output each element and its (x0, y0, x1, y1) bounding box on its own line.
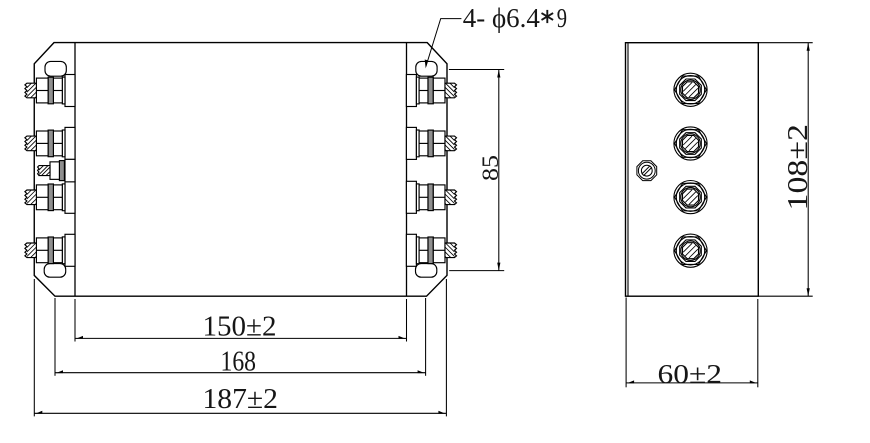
ground hex screw (side) (637, 161, 657, 181)
svg-text:9: 9 (557, 3, 567, 33)
svg-text:60±2: 60±2 (658, 358, 723, 389)
terminal 2 left (25, 127, 75, 159)
dim 150: arrowheads (76, 336, 83, 339)
screw terminal 1 (side) (674, 73, 707, 106)
dim 150: extension lines (75, 299, 407, 342)
dim 85: dimension line (498, 70, 500, 271)
terminal 4 left (25, 234, 75, 266)
leader line for mounting hole callout (426, 19, 462, 67)
body left edge line (74, 43, 76, 297)
mounting slot top-left (45, 61, 66, 76)
dim 187: arrowheads (35, 411, 42, 414)
dim 108: extension lines (759, 43, 813, 297)
svg-text:4- ϕ6.4: 4- ϕ6.4 (463, 3, 540, 33)
mounting slot bottom-right (416, 264, 437, 278)
terminal 3 right (406, 181, 456, 213)
svg-text:85: 85 (478, 155, 503, 181)
body right edge line (406, 43, 408, 297)
dim 85: extension lines (449, 70, 504, 271)
side view inner edge line (627, 43, 629, 296)
terminal 1 left (25, 75, 75, 107)
dim 168: dimension line (55, 372, 426, 374)
dim 187: extension lines (34, 279, 446, 416)
svg-text:108±2: 108±2 (783, 124, 814, 211)
terminal 4 right (406, 234, 456, 266)
mounting slot top-right (416, 61, 437, 76)
mounting slot bottom-left (44, 264, 65, 278)
dim 108: arrowheads (807, 43, 810, 51)
filter body flange outline (34, 43, 447, 297)
side view body rectangle (626, 43, 759, 297)
svg-text:150±2: 150±2 (203, 312, 277, 343)
dim 168: extension lines (55, 298, 426, 376)
dim 168: arrowheads (56, 370, 63, 373)
svg-text:168: 168 (221, 347, 257, 378)
terminal 1 right (406, 75, 456, 107)
screw terminal 4 (side) (674, 234, 707, 267)
svg-text:187±2: 187±2 (203, 384, 279, 415)
dim 85: arrowheads (497, 70, 500, 78)
dim 150: dimension line (75, 337, 407, 339)
ground terminal left (38, 159, 75, 182)
dim 60: extension lines (626, 298, 758, 388)
dim 108: dimension line (807, 43, 809, 297)
dim 60: arrowheads (627, 380, 634, 383)
callout asterisk star (542, 10, 554, 23)
leader arrowhead (425, 60, 428, 69)
terminal 3 left (25, 181, 75, 213)
screw terminal 3 (side) (674, 181, 707, 214)
dim 187: dimension line (34, 412, 446, 414)
dim 60: dimension line (626, 382, 758, 384)
screw terminal 2 (side) (674, 127, 707, 160)
terminal 2 right (406, 127, 456, 159)
